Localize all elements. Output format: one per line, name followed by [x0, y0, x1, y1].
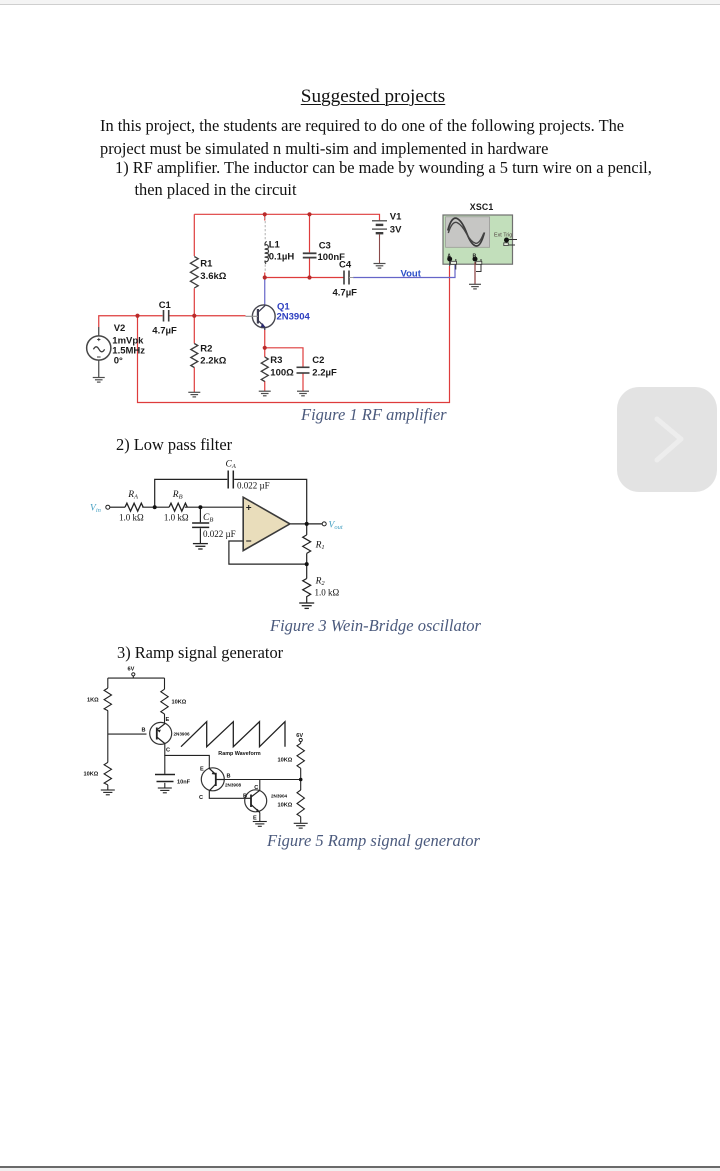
- svg-text:R2: R2: [315, 577, 326, 588]
- svg-text:3.6kΩ: 3.6kΩ: [200, 271, 226, 282]
- svg-text:E: E: [166, 717, 170, 723]
- svg-text:10KΩ: 10KΩ: [278, 803, 293, 809]
- svg-text:Ext Trig: Ext Trig: [494, 232, 512, 238]
- svg-text:0°: 0°: [114, 356, 123, 367]
- svg-text:2N3906: 2N3906: [174, 732, 191, 737]
- svg-text:R3: R3: [270, 355, 282, 366]
- svg-text:B: B: [473, 254, 477, 260]
- svg-text:3V: 3V: [390, 225, 402, 236]
- svg-text:0.1µH: 0.1µH: [269, 252, 295, 263]
- svg-text:E: E: [253, 816, 257, 822]
- svg-text:V1: V1: [390, 212, 402, 223]
- svg-text:Vin: Vin: [90, 504, 101, 515]
- svg-text:2.2kΩ: 2.2kΩ: [200, 355, 226, 366]
- svg-text:B: B: [243, 794, 247, 800]
- svg-text:2.2µF: 2.2µF: [312, 367, 337, 378]
- svg-text:6V: 6V: [296, 733, 303, 739]
- svg-text:C: C: [199, 795, 203, 801]
- svg-text:0.022 µF: 0.022 µF: [237, 481, 270, 491]
- svg-text:R1: R1: [315, 541, 325, 552]
- svg-text:C4: C4: [339, 259, 352, 270]
- svg-text:10KΩ: 10KΩ: [278, 758, 293, 764]
- svg-text:1.0 kΩ: 1.0 kΩ: [315, 588, 340, 598]
- svg-text:6V: 6V: [128, 667, 135, 673]
- svg-text:2N3904: 2N3904: [271, 794, 288, 799]
- svg-text:RB: RB: [172, 490, 183, 501]
- svg-text:100Ω: 100Ω: [270, 367, 294, 378]
- svg-text:CB: CB: [203, 513, 213, 524]
- svg-text:2N3904: 2N3904: [277, 312, 311, 323]
- svg-text:CA: CA: [226, 460, 236, 471]
- svg-text:C: C: [166, 748, 170, 754]
- svg-text:10nF: 10nF: [177, 780, 191, 786]
- svg-text:C2: C2: [312, 355, 324, 366]
- svg-text:4.7µF: 4.7µF: [333, 287, 358, 298]
- svg-text:Vout: Vout: [329, 520, 343, 531]
- svg-text:XSC1: XSC1: [470, 202, 494, 212]
- svg-text:4.7µF: 4.7µF: [152, 326, 177, 337]
- svg-text:R2: R2: [200, 343, 212, 354]
- svg-text:Ramp Waveform: Ramp Waveform: [218, 751, 261, 757]
- svg-text:E: E: [200, 767, 204, 773]
- svg-text:C3: C3: [319, 241, 331, 252]
- svg-text:0.022 µF: 0.022 µF: [203, 529, 236, 539]
- svg-text:2N3908: 2N3908: [225, 783, 242, 788]
- svg-text:B: B: [142, 728, 146, 734]
- svg-text:A: A: [447, 254, 451, 260]
- svg-text:1KΩ: 1KΩ: [87, 698, 99, 704]
- svg-text:10KΩ: 10KΩ: [172, 700, 187, 706]
- svg-text:Vout: Vout: [401, 268, 422, 279]
- svg-text:1.0 kΩ: 1.0 kΩ: [164, 512, 189, 522]
- svg-text:R1: R1: [200, 258, 213, 269]
- svg-text:10KΩ: 10KΩ: [84, 772, 99, 778]
- svg-text:L1: L1: [269, 240, 281, 251]
- svg-text:1.0 kΩ: 1.0 kΩ: [119, 512, 144, 522]
- svg-text:Q1: Q1: [277, 301, 290, 312]
- svg-text:V2: V2: [114, 323, 126, 334]
- svg-text:C: C: [254, 785, 258, 791]
- svg-text:C1: C1: [159, 300, 172, 311]
- svg-text:RA: RA: [127, 490, 138, 501]
- svg-text:B: B: [227, 774, 231, 780]
